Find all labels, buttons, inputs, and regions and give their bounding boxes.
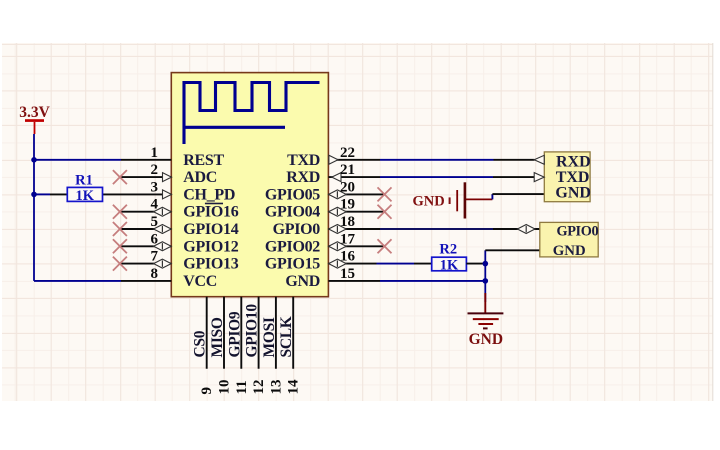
svg-text:16: 16 — [340, 249, 356, 265]
no-ERC X pin19 — [378, 205, 392, 219]
pin 17 GPIO02 — [328, 242, 384, 251]
node junction pin1 rail — [31, 157, 37, 163]
label pin names right — [265, 152, 320, 290]
svg-text:GPIO14: GPIO14 — [183, 221, 238, 238]
label bottom pin names rotated — [192, 304, 296, 358]
no-ERC X pin5 — [113, 222, 127, 236]
node junction R1 rail — [31, 192, 37, 198]
antenna meander symbol — [184, 83, 320, 145]
svg-text:4: 4 — [151, 197, 159, 213]
pin 15 GND wire — [328, 280, 485, 282]
resistor R1 — [50, 173, 103, 204]
bottom pin 11 GPIO9 — [240, 297, 242, 369]
svg-text:3.3V: 3.3V — [19, 104, 50, 121]
svg-text:1K: 1K — [440, 258, 459, 274]
svg-text:20: 20 — [340, 179, 355, 195]
svg-text:SCLK: SCLK — [278, 316, 295, 357]
svg-text:GPIO10: GPIO10 — [244, 304, 261, 358]
svg-text:R1: R1 — [75, 173, 93, 189]
label pin numbers left — [151, 145, 159, 282]
svg-text:11: 11 — [234, 380, 250, 394]
ground GND symbol — [468, 293, 504, 348]
pin 5 GPIO14 — [121, 225, 171, 234]
svg-text:GPIO05: GPIO05 — [265, 186, 320, 203]
svg-text:10: 10 — [217, 380, 233, 395]
svg-text:3: 3 — [151, 179, 159, 195]
svg-text:6: 6 — [151, 231, 159, 247]
bottom pin 9 CS0 — [206, 297, 208, 369]
pin 19 GPIO04 — [328, 207, 384, 216]
svg-text:REST: REST — [183, 152, 224, 169]
svg-text:GND: GND — [555, 185, 591, 202]
svg-text:GPIO0: GPIO0 — [273, 221, 321, 238]
svg-text:VCC: VCC — [183, 273, 217, 290]
port GPIO0/GND connector — [540, 222, 599, 258]
svg-text:1: 1 — [151, 145, 159, 161]
svg-text:CS0: CS0 — [192, 330, 209, 357]
no-ERC X pin4 — [113, 205, 127, 219]
op-amp U1 module body ESP8266 — [171, 73, 328, 297]
svg-text:GPIO02: GPIO02 — [265, 238, 320, 255]
svg-text:5: 5 — [151, 214, 159, 230]
svg-text:CH_PD: CH_PD — [183, 186, 235, 203]
wire rail to R1 — [34, 193, 50, 195]
svg-text:2: 2 — [151, 162, 159, 178]
no-ERC X pin20 — [378, 187, 392, 201]
svg-text:13: 13 — [268, 380, 284, 395]
svg-text:GPIO15: GPIO15 — [265, 256, 320, 273]
wire GND vertical rail right — [485, 250, 540, 302]
pin 8 VCC wire — [34, 280, 171, 282]
svg-text:GPIO9: GPIO9 — [226, 311, 243, 357]
bottom pin 12 GPIO10 — [258, 297, 260, 369]
svg-text:TXD: TXD — [556, 169, 590, 186]
wire 3.3V rail — [33, 134, 35, 281]
svg-text:GPIO0: GPIO0 — [557, 224, 599, 240]
svg-text:ADC: ADC — [183, 169, 217, 186]
bottom pin 10 MISO — [223, 297, 225, 369]
pin 4 GPIO16 — [121, 207, 171, 216]
svg-text:GND: GND — [553, 243, 586, 259]
svg-text:8: 8 — [151, 266, 159, 282]
sheet edge right — [712, 43, 714, 401]
svg-text:GND: GND — [469, 331, 503, 348]
pin 2 ADC — [121, 173, 172, 182]
pin 18 GPIO0 wire — [328, 225, 539, 234]
svg-text:MOSI: MOSI — [261, 317, 278, 357]
svg-text:7: 7 — [151, 249, 159, 265]
svg-text:17: 17 — [340, 231, 356, 247]
svg-text:R2: R2 — [439, 242, 457, 258]
pin 3 CH_PD — [103, 190, 172, 199]
svg-text:GPIO12: GPIO12 — [183, 238, 238, 255]
power port GND1 — [413, 182, 545, 218]
svg-text:15: 15 — [340, 266, 355, 282]
pin 7 GPIO13 — [121, 259, 171, 268]
svg-text:GPIO04: GPIO04 — [265, 204, 320, 221]
svg-text:1K: 1K — [76, 188, 95, 204]
svg-text:GPIO13: GPIO13 — [183, 256, 238, 273]
pin 16 GPIO15 wire to R2 — [328, 259, 414, 268]
pin 20 GPIO05 — [328, 190, 384, 199]
power port 3.3V — [19, 104, 50, 134]
port RXD/TXD/GND connector — [534, 152, 591, 202]
label pin names left — [183, 152, 238, 290]
svg-text:18: 18 — [340, 214, 355, 230]
label bottom pin numbers rotated — [199, 379, 302, 395]
svg-text:RXD: RXD — [286, 169, 320, 186]
svg-text:TXD: TXD — [287, 152, 320, 169]
pin 22 TXD wire — [328, 155, 534, 164]
svg-text:GPIO16: GPIO16 — [183, 204, 238, 221]
svg-text:21: 21 — [340, 162, 355, 178]
svg-text:9: 9 — [199, 387, 215, 395]
no-ERC X pin7 — [113, 257, 127, 271]
resistor R2 — [414, 242, 485, 274]
svg-text:GND: GND — [413, 193, 445, 209]
pin 1 REST wire — [34, 159, 171, 161]
bottom pin 13 MOSI — [275, 297, 277, 369]
label pin numbers right — [340, 145, 356, 282]
svg-text:12: 12 — [251, 380, 267, 395]
no-ERC X pin6 — [113, 239, 127, 253]
no-ERC X pin2 — [113, 170, 127, 184]
svg-text:14: 14 — [286, 379, 302, 395]
svg-text:MISO: MISO — [209, 317, 226, 357]
bottom pin 14 SCLK — [292, 297, 294, 369]
pin 6 GPIO12 — [121, 242, 171, 251]
svg-text:GND: GND — [285, 273, 320, 290]
node junction R2 — [483, 261, 489, 267]
no-ERC X pin17 — [378, 239, 392, 253]
pin 21 RXD wire — [328, 173, 534, 182]
node junction GND15 — [483, 278, 489, 284]
svg-text:22: 22 — [340, 145, 355, 161]
svg-text:19: 19 — [340, 197, 355, 213]
